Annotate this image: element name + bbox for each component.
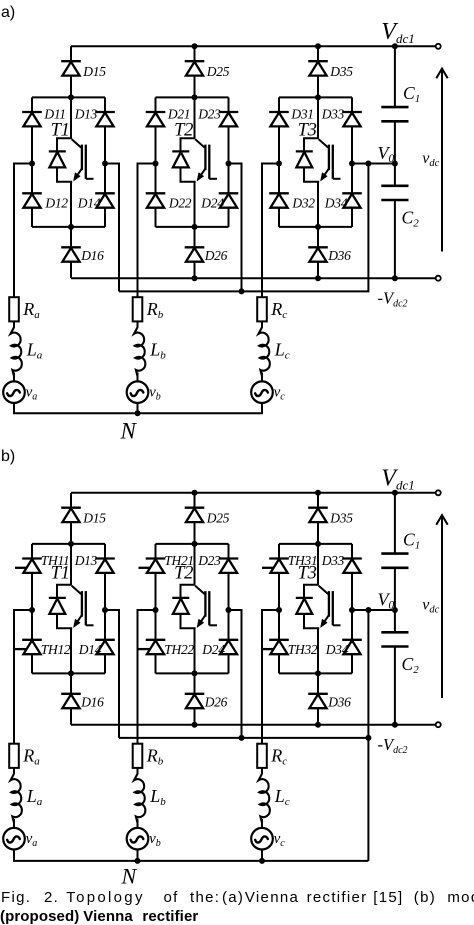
node junction [68,670,74,676]
node junction [392,275,398,281]
svg-text:D31: D31 [290,107,313,122]
wire bridge top [279,543,352,545]
capacitor C1 (b) [381,554,408,568]
svg-text:D24: D24 [201,642,225,657]
node ac-side [276,607,282,613]
svg-text:Rb: Rb [146,299,164,321]
transistor T2 IGBT [172,585,217,628]
diode D35 (a) [308,61,328,75]
node junction [315,722,321,728]
node junction [315,490,321,496]
wire bridge bottom [279,226,352,228]
wire [70,673,72,694]
diode D23 [219,112,239,126]
svg-text:D33: D33 [321,553,345,568]
diode D34 [342,640,362,654]
wire bridge right [228,97,230,227]
diode D33 [342,559,362,573]
thyristor TH12 [15,640,42,654]
wire bridge left [31,97,33,227]
svg-text:D15: D15 [82,511,106,526]
svg-text:C1: C1 [403,530,420,552]
inductor La (a) [11,327,22,376]
svg-text:Lc: Lc [274,786,290,808]
wire bridge left [278,97,280,227]
node junction [192,490,198,496]
svg-text:vc: vc [274,831,286,849]
wire [194,75,196,97]
svg-text:D25: D25 [206,511,230,526]
wire [194,261,196,278]
node junction [135,858,141,864]
node V0 tee [365,607,371,613]
diode D13 [95,112,115,126]
svg-text:N: N [121,864,138,889]
svg-text:C2: C2 [402,208,420,230]
node junction [192,224,198,230]
wire bridge top [32,96,105,98]
node junction [192,94,198,100]
wire [394,46,396,107]
diode D14 [95,193,115,207]
svg-text:D26: D26 [204,695,228,710]
wire bridge right [104,544,106,674]
wire bridge top [279,96,352,98]
node junction [315,670,321,676]
svg-text:N: N [120,418,138,443]
wire bridge bottom [156,672,229,674]
wire [394,568,396,633]
wire [194,708,196,725]
svg-text:va: va [26,385,38,403]
source vb (b) [127,828,149,850]
svg-text:Rc: Rc [270,299,287,321]
svg-text:T1: T1 [51,563,70,583]
wire [70,182,72,227]
wire [137,372,139,381]
wire bridge left [31,544,33,674]
wire bridge right [351,97,353,227]
wire to midpoint [352,609,395,611]
node bus-neutral tee [365,735,371,741]
node ac-side [29,607,35,613]
svg-text:TH22: TH22 [164,642,194,657]
thyristor TH11 [15,559,42,573]
svg-text:-Vdc2: -Vdc2 [378,735,408,756]
wire to midpoint bus [229,164,242,292]
wire bridge left [278,544,280,674]
source vc (a) [251,381,273,403]
svg-text:TH12: TH12 [41,642,71,657]
top DC rail wire [71,45,436,47]
wire [70,97,72,138]
node junction [192,670,198,676]
node junction [192,722,198,728]
wire [70,544,72,585]
wire [13,768,15,774]
diode D25 (b) [185,508,205,522]
wire bridge top [156,96,229,98]
wire phase b [138,164,156,298]
caption line 1 [1,890,31,905]
wire bridge bottom [279,672,352,674]
wire [317,182,319,227]
wire [70,708,72,725]
wire [194,628,196,673]
wire to midpoint bus [229,610,242,738]
source va (a) [3,381,25,403]
diode D31 [269,112,289,126]
node junction [192,43,198,49]
svg-text:D35: D35 [329,511,353,526]
wire [317,673,319,694]
wire neutral rail [14,850,368,861]
svg-text:D24: D24 [200,196,224,211]
capacitor C2 (a) [381,186,408,200]
wire bridge left [155,544,157,674]
svg-text:TH32: TH32 [288,642,318,657]
wire [70,75,72,97]
wire [13,321,15,327]
svg-text:D23: D23 [197,107,221,122]
svg-text:va: va [26,831,38,849]
resistor Rc (a) [257,297,267,321]
resistor Rc (b) [257,744,267,768]
wire [70,493,72,508]
node junction [192,541,198,547]
resistor Ra (b) [9,744,19,768]
node junction [239,288,245,294]
diode D22 [146,193,166,207]
node V0 [392,161,398,167]
wire [194,46,196,61]
wire [394,493,396,554]
wire [261,768,263,774]
svg-text:Ra: Ra [22,299,40,321]
wire [317,493,319,508]
node junction [135,410,141,416]
diode D32 [269,193,289,207]
node junction [259,858,265,864]
diode D14 [95,640,115,654]
svg-text:D13: D13 [74,107,98,122]
node ac-side [29,161,35,167]
svg-text:Rb: Rb [146,746,164,768]
svg-text:D33: D33 [321,107,345,122]
node junction [315,43,321,49]
wire [394,121,396,186]
wire bridge left [155,97,157,227]
node junction [68,224,74,230]
wire bridge right [228,544,230,674]
top DC rail wire [71,492,436,494]
wire [70,46,72,61]
wire [70,522,72,544]
svg-text:D14: D14 [78,642,102,657]
svg-text:D15: D15 [82,64,106,79]
transistor T1 IGBT [49,138,94,181]
wire [317,628,319,673]
wire [194,522,196,544]
svg-text:T3: T3 [298,563,317,583]
inductor La (b) [11,774,22,823]
node junction [315,541,321,547]
svg-text:vb: vb [149,385,161,403]
svg-text:D11: D11 [43,107,65,122]
thyristor TH31 [262,559,289,573]
svg-text:D23: D23 [197,553,221,568]
wire neutral rail [14,403,262,413]
transistor T3 IGBT [296,585,341,628]
caption line 2 [0,909,79,924]
diode D16 (a) [61,247,81,261]
wire [317,261,319,278]
capacitor C2 (b) [381,632,408,646]
svg-text:La: La [26,340,43,362]
node v0-side [349,607,355,613]
node junction [192,275,198,281]
wire [137,850,139,861]
thyristor TH22 [139,640,166,654]
svg-text:vdc: vdc [422,150,439,169]
diode D15 (a) [61,61,81,75]
svg-text:D35: D35 [329,64,353,79]
diode D12 [22,193,42,207]
wire to midpoint bus [105,610,119,738]
source va (b) [3,828,25,850]
svg-text:D32: D32 [291,196,315,211]
svg-text:vc: vc [274,385,286,403]
wire phase c [262,610,279,744]
svg-text:vb: vb [149,831,161,849]
svg-text:D34: D34 [325,642,349,657]
node v0-side [226,161,232,167]
node v0-side [349,161,355,167]
wire [394,200,396,278]
node junction [68,541,74,547]
terminal -Vdc2 [436,276,441,281]
wire [137,768,139,774]
diode D24 [219,640,239,654]
arrow vdc (b) [436,515,447,698]
wire [317,227,319,248]
wire [194,544,196,585]
svg-text:C2: C2 [402,654,420,676]
wire bridge right [351,544,353,674]
wire [70,628,72,673]
diode D34 [342,193,362,207]
wire [261,819,263,828]
diode D36 (b) [308,694,328,708]
node V0 tee [365,161,371,167]
terminal -Vdc2 [436,722,441,727]
inductor Lb (b) [134,774,145,823]
wire [261,372,263,381]
svg-text:-Vdc2: -Vdc2 [378,288,408,309]
svg-text:b): b) [1,448,15,465]
diode D24 [219,193,239,207]
wire bridge bottom [32,226,105,228]
node ac-side [276,161,282,167]
wire [137,403,139,413]
svg-text:D12: D12 [44,196,68,211]
wire to midpoint [352,163,395,165]
wire [194,493,196,508]
wire [317,75,319,97]
diode D35 (b) [308,508,328,522]
svg-text:C1: C1 [403,83,420,105]
svg-text:V0: V0 [378,589,395,611]
node V0 [392,607,398,613]
node ac-side [153,607,159,613]
node junction [392,490,398,496]
svg-text:La: La [26,786,43,808]
resistor Ra (a) [9,297,19,321]
bottom DC rail wire [71,724,436,726]
wire [317,46,319,61]
wire phase a [14,610,32,744]
wire to midpoint bus [105,164,119,292]
wire [70,261,72,278]
svg-text:D16: D16 [80,695,104,710]
node junction [315,224,321,230]
wire [317,522,319,544]
source vb (a) [127,381,149,403]
svg-text:D34: D34 [324,196,348,211]
svg-text:Lb: Lb [149,786,166,808]
inductor Lb (a) [134,327,145,376]
thyristor TH21 [139,559,166,573]
resistor Rb (b) [133,744,143,768]
wire bridge bottom [32,672,105,674]
svg-text:D14: D14 [77,196,101,211]
wire [194,97,196,138]
node ac-side [153,161,159,167]
wire bridge bottom [156,226,229,228]
svg-text:D36: D36 [327,248,351,263]
svg-text:D22: D22 [168,196,192,211]
wire [394,647,396,725]
wire bridge right [104,97,106,227]
diode D15 (b) [61,508,81,522]
wire [317,708,319,725]
node junction [392,43,398,49]
transistor T3 IGBT [296,138,341,181]
capacitor C1 (a) [381,107,408,121]
wire [70,227,72,248]
svg-text:T2: T2 [174,563,193,583]
wire phase a [14,164,32,298]
resistor Rb (a) [133,297,143,321]
terminal Vdc1 [436,490,441,495]
node v0-side [102,607,108,613]
wire [194,182,196,227]
svg-text:Lb: Lb [149,340,166,362]
wire [261,850,263,861]
wire [317,544,319,585]
wire midpoint bus [119,164,368,292]
svg-text:D25: D25 [206,64,230,79]
wire [194,227,196,248]
transistor T2 IGBT [172,138,217,181]
svg-text:Ra: Ra [22,746,40,768]
diode D33 [342,112,362,126]
diode D11 [22,112,42,126]
svg-text:Vdc1: Vdc1 [381,466,414,493]
svg-text:D16: D16 [80,248,104,263]
wire [137,819,139,828]
svg-text:Rc: Rc [270,746,287,768]
transistor T1 IGBT [49,585,94,628]
wire phase c [262,164,279,298]
wire [137,321,139,327]
diode D26 (b) [185,694,205,708]
diode D16 (b) [61,694,81,708]
wire neutral to midpoint [367,738,369,861]
arrow vdc (a) [436,69,447,252]
node junction [315,94,321,100]
wire [13,819,15,828]
diode D21 [146,112,166,126]
wire midpoint bus [119,610,368,738]
wire [194,673,196,694]
inductor Lc (b) [259,774,270,823]
diode D25 (a) [185,61,205,75]
wire bridge top [156,543,229,545]
svg-text:D36: D36 [327,695,351,710]
source vc (b) [251,828,273,850]
svg-text:D21: D21 [167,107,190,122]
svg-text:Lc: Lc [274,340,290,362]
wire [13,372,15,381]
node junction [315,275,321,281]
diode D23 [219,559,239,573]
svg-text:Vdc1: Vdc1 [381,19,414,46]
node v0-side [102,161,108,167]
terminal Vdc1 [436,44,441,49]
thyristor TH32 [262,640,289,654]
svg-text:D13: D13 [74,553,98,568]
node junction [239,735,245,741]
inductor Lc (a) [259,327,270,376]
svg-text:D26: D26 [204,248,228,263]
svg-text:a): a) [1,4,15,21]
bottom DC rail wire [71,277,436,279]
wire phase b [138,610,156,744]
node v0-side [226,607,232,613]
diode D36 (a) [308,247,328,261]
diode D26 (a) [185,247,205,261]
wire [261,321,263,327]
wire bridge top [32,543,105,545]
wire [317,97,319,138]
svg-text:vdc: vdc [422,597,439,616]
svg-text:V0: V0 [378,143,395,165]
node junction [68,94,74,100]
diode D13 [95,559,115,573]
node junction [392,722,398,728]
